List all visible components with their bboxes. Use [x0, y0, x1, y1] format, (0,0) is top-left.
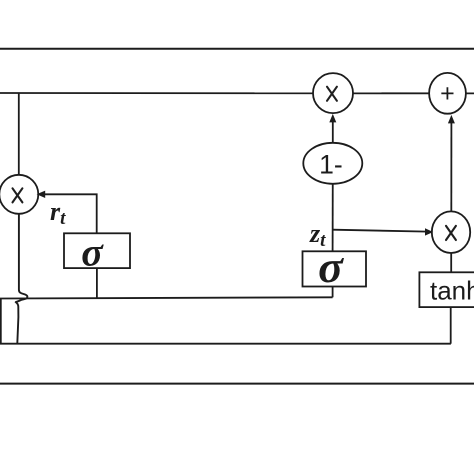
svg-text:zt: zt — [309, 219, 326, 251]
wire: left edge vertical stub — [0, 299, 2, 344]
arrow line: 1- ellipse up to X-top node — [332, 120, 334, 163]
bottom boundary line — [0, 383, 474, 385]
arrowhead 1- to X-top — [329, 114, 336, 123]
arrow line: X2 up to + node — [450, 121, 452, 232]
sigma box 2 (update gate) — [303, 251, 367, 286]
wire: X1 down with crossing hop then slant to x_t bus — [16, 214, 28, 344]
label X in X-top (drawn strokes) — [327, 87, 337, 101]
label X in X1 (drawn strokes) — [13, 188, 23, 202]
wire: tanh top vertical to X2 — [450, 248, 452, 272]
svg-text:tanh: tanh — [430, 276, 474, 306]
label X in X2 (drawn strokes) — [446, 226, 456, 240]
wire: top boundary line — [0, 48, 474, 50]
wire: h(t-1) horizontal bus through X and + nodes — [0, 92, 474, 94]
sigma box 1 (reset gate) — [64, 233, 130, 268]
multiply node X2 (update product) — [432, 211, 470, 253]
svg-text:+: + — [440, 80, 455, 108]
wire: sigma1 bottom vertical — [96, 268, 98, 299]
svg-text:rt: rt — [50, 197, 66, 229]
wire: left vertical drop from bus to X1 — [18, 93, 20, 194]
wire: x_t bottom bus — [0, 343, 451, 345]
arrowhead into X1 from r_t wire — [37, 191, 46, 198]
wire: sigma2 bottom vertical — [332, 287, 334, 298]
wire: sigma2 top vertical up to 1- ellipse — [332, 163, 334, 252]
wire: tanh bottom vertical to x_t bus — [450, 307, 452, 344]
arrowhead X2 to + — [448, 115, 455, 124]
svg-text:σ: σ — [81, 230, 104, 275]
tanh box (candidate state) — [419, 272, 474, 307]
wire: middle horizontal bus — [0, 297, 333, 298]
multiply node X1 (reset gate product) — [0, 175, 38, 214]
svg-text:1-: 1- — [319, 149, 343, 179]
arrow line: z_t branch to X2 node — [333, 230, 428, 232]
one-minus node (1-) — [303, 143, 362, 184]
wire: r_t feedback from sigma1 top to X1 — [40, 194, 97, 234]
multiply node X-top (forget product) — [313, 73, 353, 113]
add node + — [429, 73, 466, 114]
arrowhead z_t to X2 — [425, 228, 433, 235]
